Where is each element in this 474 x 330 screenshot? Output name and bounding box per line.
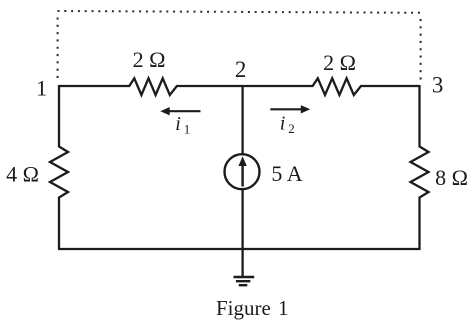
svg-text:1: 1 bbox=[36, 76, 47, 101]
svg-text:Figure: Figure bbox=[216, 296, 271, 320]
svg-text:i: i bbox=[280, 113, 286, 135]
svg-text:1: 1 bbox=[278, 296, 289, 320]
svg-text:4 Ω: 4 Ω bbox=[6, 161, 39, 186]
svg-text:2: 2 bbox=[235, 57, 247, 82]
svg-text:3: 3 bbox=[432, 73, 444, 98]
svg-text:2 Ω: 2 Ω bbox=[323, 50, 356, 75]
svg-text:2 Ω: 2 Ω bbox=[133, 47, 166, 72]
svg-text:2: 2 bbox=[288, 121, 295, 136]
svg-text:i: i bbox=[175, 113, 181, 135]
svg-text:5 A: 5 A bbox=[271, 161, 302, 186]
svg-text:1: 1 bbox=[184, 122, 191, 137]
svg-text:8 Ω: 8 Ω bbox=[435, 165, 468, 190]
